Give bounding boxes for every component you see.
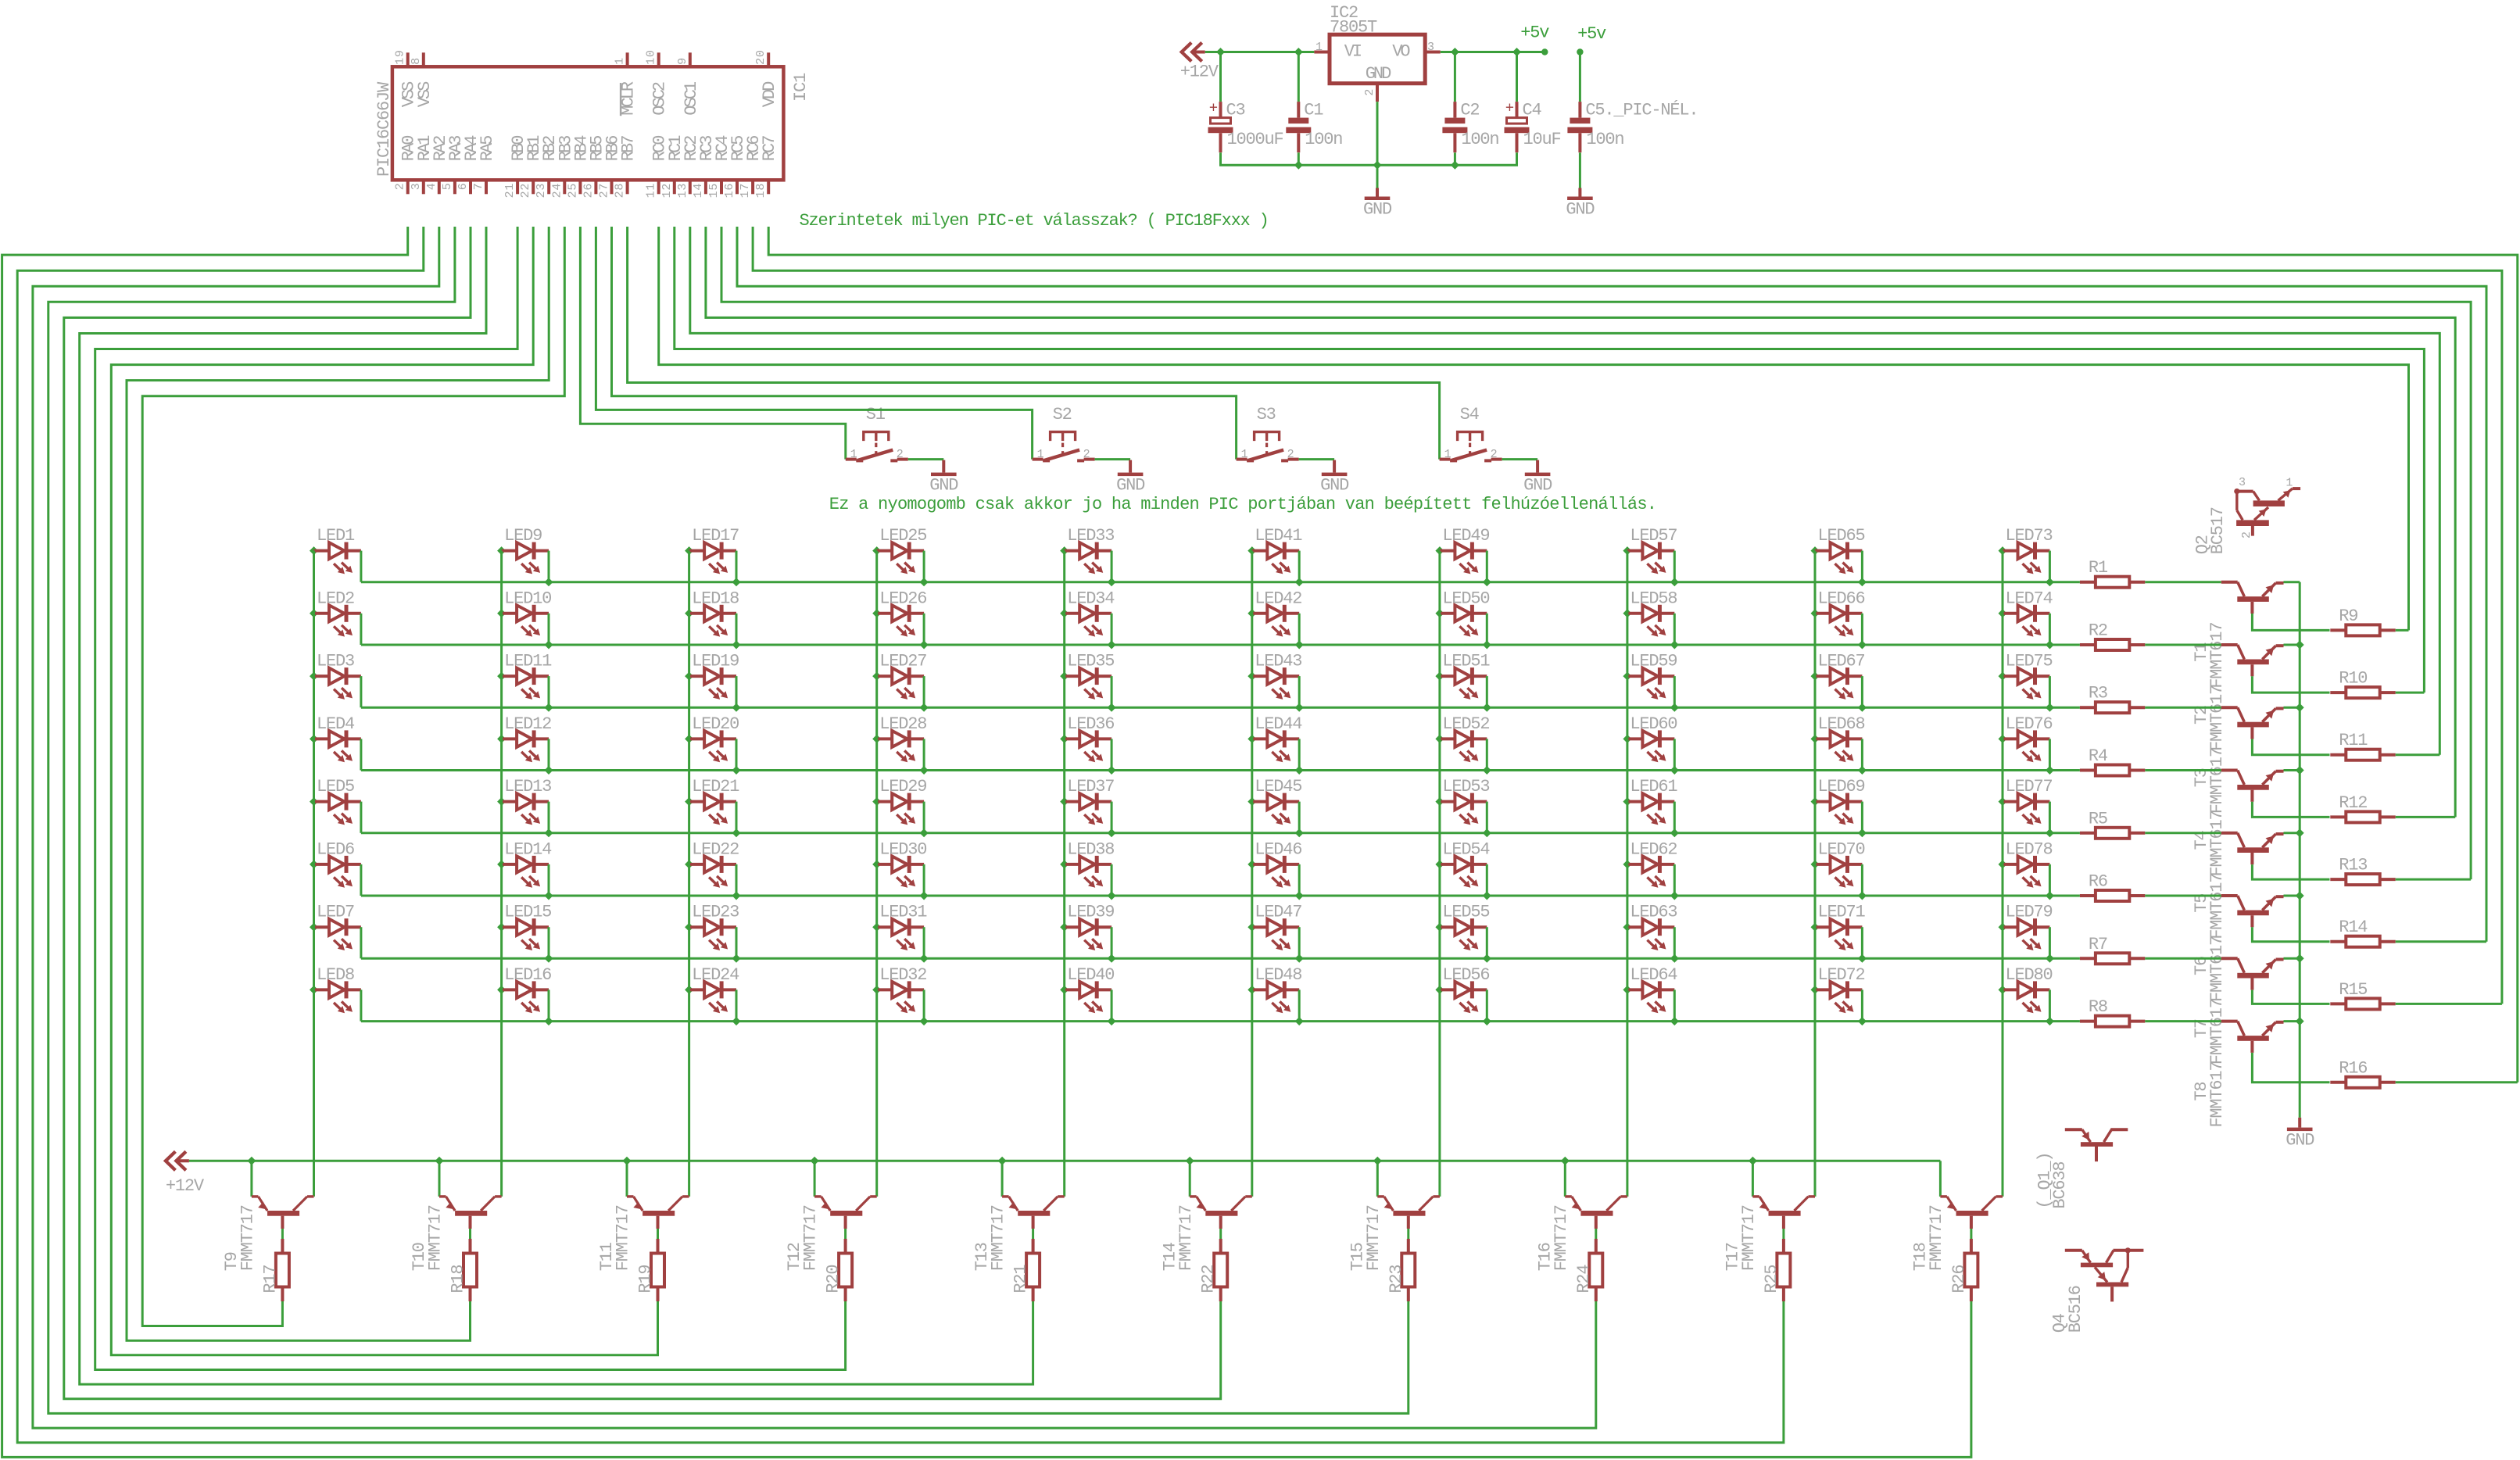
wire T8 emitter: [2284, 1020, 2300, 1022]
svg-text:LED79: LED79: [2006, 903, 2053, 922]
IC1 pin 26 (RB5): [582, 136, 607, 199]
wire LED row 6: [361, 895, 2080, 897]
svg-text:BC517: BC517: [2208, 507, 2228, 554]
svg-text:LED48: LED48: [1255, 965, 1301, 985]
LED LED9: [497, 526, 549, 574]
svg-text:LED30: LED30: [879, 839, 926, 859]
svg-text:LED60: LED60: [1630, 714, 1677, 734]
svg-text:1: 1: [1315, 41, 1323, 54]
LED LED70: [1811, 839, 1865, 887]
svg-text:R9: R9: [2339, 607, 2357, 626]
IC1 pin 10 (OSC2): [645, 49, 670, 115]
LED LED61: [1623, 777, 1677, 825]
svg-text:LED10: LED10: [504, 589, 551, 608]
wire R26 to pin RA0: [2, 227, 1971, 1457]
node row7 col2 junction: [545, 954, 553, 963]
IC1 pin 11 (RC0): [645, 136, 670, 199]
IC1 pin 15 (RC4): [707, 135, 732, 199]
node row1 col6 junction: [1295, 578, 1304, 586]
node row7 col7 junction: [1483, 954, 1491, 963]
LED LED34: [1060, 589, 1115, 636]
node gnd rail C1: [1294, 161, 1303, 170]
node row8 col4 junction: [920, 1017, 929, 1025]
node row5 col4 junction: [920, 828, 929, 837]
svg-text:C3: C3: [1226, 101, 1245, 120]
node rail T16 emitter: [1561, 1157, 1570, 1165]
svg-text:28: 28: [614, 183, 627, 199]
node row3 col8 junction: [1670, 703, 1679, 712]
svg-text:+12V: +12V: [166, 1176, 205, 1196]
wire LED1 cathode drop: [360, 551, 362, 582]
transistor T3 FMMT617: [2192, 707, 2284, 814]
svg-text:LED25: LED25: [879, 526, 926, 546]
wire LED45 cathode drop: [1298, 802, 1301, 833]
resistor R21: [1011, 1239, 1040, 1301]
resistor R8: [2080, 997, 2145, 1027]
wire LED row 8: [361, 1020, 2080, 1022]
svg-text:22: 22: [519, 183, 532, 199]
wire LED77 cathode drop: [2049, 802, 2051, 833]
transistor Q4 BC516: [2049, 1247, 2143, 1333]
svg-text:LED23: LED23: [692, 903, 739, 922]
svg-text:18: 18: [754, 183, 768, 199]
LED LED15: [497, 903, 551, 950]
wire R13 to RC4 net: [2396, 879, 2471, 881]
wire T4 emitter: [2284, 769, 2300, 771]
node rail T17 emitter: [1749, 1157, 1757, 1165]
transistor T17 FMMT717: [1724, 1161, 1816, 1271]
svg-text:LED13: LED13: [504, 777, 551, 796]
svg-text:R11: R11: [2339, 731, 2368, 750]
wire LED16 cathode drop: [548, 989, 550, 1021]
wire R8 to T8: [2145, 1020, 2221, 1022]
IC1 pin 16 (RC5): [723, 136, 748, 199]
LED LED8: [310, 965, 361, 1013]
svg-text:LED55: LED55: [1442, 903, 1489, 922]
LED LED38: [1060, 839, 1114, 887]
resistor R10: [2330, 669, 2395, 699]
node row1 col3 junction: [732, 578, 741, 586]
node row8 col2 junction: [545, 1017, 553, 1025]
svg-text:1: 1: [1037, 448, 1045, 461]
transistor T18 FMMT717: [1911, 1161, 2003, 1271]
svg-text:R23: R23: [1387, 1265, 1406, 1294]
wire LED column 10: [2002, 551, 2004, 1197]
wire T18 base to R26: [1970, 1229, 1972, 1239]
LED LED80: [1999, 965, 2053, 1013]
resistor R24: [1574, 1239, 1603, 1301]
svg-text:LED41: LED41: [1255, 526, 1302, 546]
wire T1 emitter: [2284, 581, 2300, 583]
LED LED5: [310, 777, 361, 825]
node row3 col3 junction: [732, 703, 741, 712]
capacitor C1 100n: [1286, 101, 1342, 153]
wire R16 to RC7 net: [2396, 1081, 2518, 1083]
switch S4: [1440, 405, 1502, 461]
node row1 col9 junction: [1858, 578, 1867, 586]
node row7 col5 junction: [1108, 954, 1116, 963]
wire R7 to T7: [2145, 957, 2221, 960]
transistor T11 FMMT717: [597, 1161, 689, 1271]
IC1 pin 6 (RA4): [456, 135, 481, 195]
LED LED23: [685, 903, 739, 950]
wire LED66 cathode drop: [1861, 614, 1863, 645]
wire LED4 cathode drop: [360, 739, 362, 770]
svg-text:LED3: LED3: [317, 652, 354, 671]
resistor R6: [2080, 872, 2145, 902]
node row5 col6 junction: [1295, 828, 1304, 837]
svg-text:PIC16C66JW: PIC16C66JW: [374, 81, 394, 177]
wire RC7 net (pin 18): [768, 227, 2518, 1082]
svg-text:8: 8: [410, 57, 423, 65]
wire C2 top: [1454, 52, 1456, 102]
LED LED31: [872, 903, 927, 950]
wire LED10 cathode drop: [548, 614, 550, 645]
wire T2 emitter: [2284, 644, 2300, 646]
node emitter junction row 4: [2296, 766, 2304, 775]
LED LED4: [310, 714, 361, 762]
svg-text:FMMT717: FMMT717: [1176, 1205, 1196, 1271]
LED LED65: [1811, 526, 1865, 574]
wire LED61 cathode drop: [1673, 802, 1676, 833]
LED LED36: [1060, 714, 1114, 762]
node row2 col7 junction: [1483, 641, 1491, 649]
svg-text:LED38: LED38: [1067, 839, 1114, 859]
svg-text:LED73: LED73: [2006, 526, 2053, 546]
svg-text:LED34: LED34: [1067, 589, 1115, 608]
wire LED15 cathode drop: [548, 927, 550, 958]
node row1 col7 junction: [1483, 578, 1491, 586]
wire R3 to T3: [2145, 707, 2221, 709]
LED LED17: [685, 526, 739, 574]
svg-text:R6: R6: [2089, 872, 2107, 892]
node row5 col5 junction: [1108, 828, 1116, 837]
svg-text:LED69: LED69: [1818, 777, 1865, 796]
wire LED62 cathode drop: [1673, 864, 1676, 896]
svg-text:3: 3: [410, 182, 423, 190]
LED LED52: [1435, 714, 1489, 762]
svg-text:R3: R3: [2089, 684, 2107, 703]
wire LED35 cathode drop: [1111, 676, 1113, 707]
IC1 pin 3 (RA1): [410, 135, 435, 195]
wire T1 base to R9: [2252, 614, 2329, 630]
IC IC1 PIC16C66JW body: [392, 66, 784, 180]
+12V supply arrow (top): [1180, 43, 1219, 82]
resistor R11: [2330, 731, 2395, 760]
wire T17 base to R25: [1782, 1229, 1784, 1239]
wire R15 to RC6 net: [2396, 1003, 2502, 1005]
svg-text:7: 7: [472, 182, 485, 190]
wire LED21 cathode drop: [736, 802, 738, 833]
resistor R20: [824, 1239, 853, 1301]
node gnd rail C2: [1451, 161, 1459, 170]
wire S3 to ground: [1299, 458, 1335, 460]
svg-text:Ez a nyomogomb csak akkor jo h: Ez a nyomogomb csak akkor jo ha minden P…: [829, 495, 1656, 514]
svg-text:R4: R4: [2089, 746, 2108, 766]
resistor R13: [2330, 856, 2395, 886]
wire R5 to T5: [2145, 832, 2221, 834]
svg-text:LED67: LED67: [1818, 652, 1865, 671]
node rail T13 emitter: [998, 1157, 1007, 1165]
svg-text:LED11: LED11: [504, 652, 552, 671]
annotation text (PIC question): [800, 211, 1269, 231]
wire RB7 to S4: [628, 227, 1440, 460]
wire T5 base to R13: [2252, 864, 2329, 879]
svg-text:R1: R1: [2089, 558, 2108, 578]
wire R23 to pin RA3: [48, 227, 1409, 1413]
svg-text:R22: R22: [1199, 1265, 1219, 1294]
svg-text:2: 2: [1363, 88, 1376, 96]
wire LED17 cathode drop: [736, 551, 738, 582]
svg-text:LED66: LED66: [1818, 589, 1865, 608]
wire LED row 1: [361, 581, 2080, 583]
LED LED20: [685, 714, 739, 762]
svg-text:LED26: LED26: [879, 589, 926, 608]
svg-text:R19: R19: [636, 1265, 656, 1294]
wire LED74 cathode drop: [2049, 614, 2051, 645]
node row1 col4 junction: [920, 578, 929, 586]
node row8 col9 junction: [1858, 1017, 1867, 1025]
resistor R26: [1949, 1239, 1978, 1301]
resistor R22: [1199, 1239, 1228, 1301]
svg-text:LED65: LED65: [1818, 526, 1865, 546]
svg-text:R25: R25: [1762, 1265, 1781, 1294]
annotation text (pull-up note): [829, 495, 1656, 514]
wire LED row 7: [361, 957, 2080, 960]
svg-text:GND: GND: [1566, 200, 1595, 220]
LED LED1: [310, 526, 361, 574]
node C1 top junction: [1294, 48, 1303, 56]
resistor R7: [2080, 935, 2145, 964]
svg-text:1: 1: [1444, 448, 1452, 461]
LED LED53: [1435, 777, 1489, 825]
wire R14 to RC5 net: [2396, 940, 2486, 943]
node row4 col2 junction: [545, 766, 553, 775]
node row6 col3 junction: [732, 892, 741, 900]
node rail T10 emitter: [435, 1157, 444, 1165]
node row5 col8 junction: [1670, 828, 1679, 837]
node emitter junction row 7: [2296, 954, 2304, 963]
svg-text:100n: 100n: [1586, 130, 1623, 149]
svg-text:LED9: LED9: [504, 526, 542, 546]
resistor R18: [449, 1239, 478, 1301]
wire gnd stub: [1376, 165, 1379, 188]
wire T16 base to R24: [1595, 1229, 1597, 1239]
svg-text:LED44: LED44: [1255, 714, 1302, 734]
wire RC1 net (pin 12): [675, 227, 2425, 692]
capacitor C2 100n: [1442, 101, 1498, 153]
LED LED22: [685, 839, 739, 887]
node row3 col9 junction: [1858, 703, 1867, 712]
wire LED71 cathode drop: [1861, 927, 1863, 958]
node row6 col9 junction: [1858, 892, 1867, 900]
wire LED9 cathode drop: [548, 551, 550, 582]
node row4 col6 junction: [1295, 766, 1304, 775]
wire R11 to RC2 net: [2396, 753, 2440, 756]
resistor R12: [2330, 793, 2395, 823]
svg-text:R18: R18: [449, 1265, 468, 1294]
transistor T15 FMMT717: [1348, 1161, 1440, 1271]
svg-text:R10: R10: [2339, 669, 2367, 689]
transistor T13 FMMT717: [972, 1161, 1065, 1271]
node row4 col4 junction: [920, 766, 929, 775]
switch S3: [1237, 405, 1299, 461]
node row2 col8 junction: [1670, 641, 1679, 649]
svg-text:LED27: LED27: [879, 652, 926, 671]
resistor R17: [260, 1239, 289, 1301]
wire LED43 cathode drop: [1298, 676, 1301, 707]
IC1 pin 20 (VDD): [754, 49, 779, 107]
wire LED57 cathode drop: [1673, 551, 1676, 582]
svg-text:2: 2: [1287, 448, 1295, 461]
node C2 top junction: [1451, 48, 1459, 56]
LED LED41: [1247, 526, 1302, 574]
wire RC5 net (pin 16): [737, 227, 2486, 942]
LED LED55: [1435, 903, 1489, 950]
svg-text:VSS: VSS: [415, 81, 435, 107]
svg-text:R5: R5: [2089, 809, 2107, 828]
svg-text:23: 23: [535, 183, 548, 199]
IC1 pin 28 (RB7): [614, 136, 639, 199]
LED LED24: [685, 965, 739, 1013]
svg-text:VI: VI: [1344, 41, 1362, 61]
svg-text:LED46: LED46: [1255, 839, 1301, 859]
svg-text:S2: S2: [1053, 405, 1072, 424]
svg-text:LED68: LED68: [1818, 714, 1865, 734]
resistor R2: [2080, 621, 2145, 651]
node row4 col8 junction: [1670, 766, 1679, 775]
svg-text:R8: R8: [2089, 997, 2107, 1017]
wire LED column 9: [1814, 551, 1817, 1197]
svg-text:R7: R7: [2089, 935, 2107, 954]
svg-text:1: 1: [850, 448, 858, 461]
wire LED column 3: [688, 551, 690, 1197]
LED LED51: [1435, 652, 1490, 700]
wire LED row 4: [361, 769, 2080, 771]
wire LED28 cathode drop: [923, 739, 925, 770]
svg-text:LED33: LED33: [1067, 526, 1114, 546]
svg-text:1: 1: [614, 57, 627, 65]
wire LED column 7: [1438, 551, 1441, 1197]
LED LED76: [1999, 714, 2053, 762]
wire LED27 cathode drop: [923, 676, 925, 707]
LED LED37: [1060, 777, 1114, 825]
wire LED row 2: [361, 644, 2080, 646]
svg-text:LED32: LED32: [879, 965, 926, 985]
node row4 col10 junction: [2046, 766, 2054, 775]
wire R12 to RC3 net: [2396, 816, 2456, 818]
svg-text:16: 16: [723, 183, 736, 199]
node row3 col4 junction: [920, 703, 929, 712]
wire LED63 cathode drop: [1673, 927, 1676, 958]
svg-text:FMMT717: FMMT717: [238, 1205, 258, 1271]
svg-text:FMMT617: FMMT617: [2207, 936, 2227, 1002]
node row7 col8 junction: [1670, 954, 1679, 963]
node C3 top junction: [1216, 48, 1225, 56]
LED LED39: [1060, 903, 1114, 950]
svg-text:+: +: [1209, 100, 1218, 117]
wire LED5 cathode drop: [360, 802, 362, 833]
svg-text:+: +: [1505, 100, 1514, 117]
LED LED35: [1060, 652, 1114, 700]
wire power gnd rail: [1221, 152, 1517, 165]
svg-text:S1: S1: [866, 405, 886, 424]
LED LED13: [497, 777, 551, 825]
node row5 col10 junction: [2046, 828, 2054, 837]
wire LED19 cathode drop: [736, 676, 738, 707]
wire LED41 cathode drop: [1298, 551, 1301, 582]
node row6 col2 junction: [545, 892, 553, 900]
LED LED60: [1623, 714, 1677, 762]
svg-text:1000uF: 1000uF: [1227, 130, 1283, 149]
IC1 pin 14 (RC3): [692, 136, 717, 199]
svg-text:LED58: LED58: [1630, 589, 1677, 608]
svg-text:R16: R16: [2339, 1058, 2367, 1078]
node row4 col5 junction: [1108, 766, 1116, 775]
svg-text:R26: R26: [1949, 1265, 1969, 1294]
ground GND (S2): [1116, 460, 1145, 496]
node row3 col2 junction: [545, 703, 553, 712]
svg-text:FMMT617: FMMT617: [2207, 1062, 2227, 1128]
wire LED38 cathode drop: [1111, 864, 1113, 896]
wire T15 base to R23: [1407, 1229, 1409, 1239]
wire LED column 2: [500, 551, 503, 1197]
wire T10 base to R18: [469, 1229, 471, 1239]
IC1 pin 2 (RA0): [394, 136, 419, 195]
wire LED46 cathode drop: [1298, 864, 1301, 896]
node C4 top junction: [1512, 48, 1521, 56]
wire LED29 cathode drop: [923, 802, 925, 833]
svg-text:11: 11: [645, 183, 658, 199]
wire LED24 cathode drop: [736, 989, 738, 1021]
svg-text:FMMT617: FMMT617: [2207, 623, 2227, 689]
wire R6 to T6: [2145, 895, 2221, 897]
wire LED67 cathode drop: [1861, 676, 1863, 707]
svg-text:19: 19: [394, 49, 407, 65]
svg-text:LED78: LED78: [2006, 839, 2053, 859]
svg-text:LED50: LED50: [1442, 589, 1489, 608]
wire LED40 cathode drop: [1111, 989, 1113, 1021]
svg-text:6: 6: [456, 182, 470, 190]
svg-text:FMMT717: FMMT717: [801, 1205, 821, 1271]
node row6 col6 junction: [1295, 892, 1304, 900]
svg-text:26: 26: [582, 183, 595, 199]
IC1 pin 17 (RC6): [739, 136, 764, 199]
LED LED16: [497, 965, 551, 1013]
wire LED70 cathode drop: [1861, 864, 1863, 896]
wire LED2 cathode drop: [360, 614, 362, 645]
svg-text:+12V: +12V: [1180, 63, 1219, 82]
IC1 pin 7 (RA5): [472, 136, 497, 195]
capacitor C4 10uF: [1505, 100, 1561, 153]
resistor R4: [2080, 746, 2145, 776]
node row6 col5 junction: [1108, 892, 1116, 900]
svg-text:R12: R12: [2339, 793, 2367, 813]
svg-text:LED1: LED1: [317, 526, 355, 546]
wire C4 top: [1516, 52, 1518, 102]
svg-text:1: 1: [2286, 477, 2293, 490]
node rail T15 emitter: [1373, 1157, 1382, 1165]
transistor T5 FMMT617: [2192, 833, 2284, 939]
+12V supply arrow (bottom): [166, 1151, 205, 1196]
wire LED42 cathode drop: [1298, 614, 1301, 645]
wire LED78 cathode drop: [2049, 864, 2051, 896]
LED LED44: [1247, 714, 1302, 762]
transistor T8 FMMT617: [2192, 1022, 2284, 1128]
node row7 col9 junction: [1858, 954, 1867, 963]
node row4 col7 junction: [1483, 766, 1491, 775]
wire R20 to pin RB0: [95, 227, 846, 1370]
